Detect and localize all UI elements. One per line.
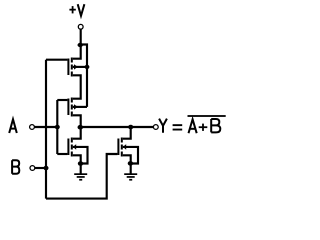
wire +V stem and Q1 source lead	[73, 29, 81, 58]
junction dot Q4 source	[128, 161, 133, 166]
terminal A	[30, 125, 35, 130]
overline NOT bar over A+B	[188, 115, 226, 117]
wire Q2 gate lead	[57, 99, 67, 101]
label +V letter V	[78, 4, 85, 16]
junction dot +V rail	[78, 43, 83, 47]
ground under Q4	[124, 173, 137, 180]
wire Q1 gate lead	[46, 59, 67, 61]
wire A bus vertical	[56, 100, 58, 154]
label formula A	[189, 119, 197, 133]
transistor Q2 PMOS gate bar and channel	[67, 98, 77, 117]
label formula B	[211, 119, 220, 132]
junction dot Q3 source	[78, 161, 83, 166]
wire output line to Y	[81, 126, 154, 128]
ground under Q3	[74, 173, 87, 180]
wire Q1 bulk lead	[73, 66, 87, 68]
terminal Y	[153, 125, 158, 130]
wire bottom loop B to Q4 gate	[46, 154, 117, 199]
label output Y	[159, 119, 167, 133]
junction dot A bus	[55, 125, 60, 130]
label input B	[12, 160, 19, 174]
wire Q4 source to ground	[123, 155, 131, 173]
wire Q2 drain to output node	[73, 115, 81, 127]
wire B bus vertical	[45, 60, 47, 199]
junction dot Q4 drain	[128, 125, 133, 130]
wire input A lead	[35, 126, 58, 128]
junction dot Q1 bulk	[85, 65, 90, 69]
wire Q2 bulk lead	[73, 106, 87, 108]
wire Q3 drain lead	[73, 127, 81, 139]
transistor Q3 NMOS gate bar and channel	[67, 138, 76, 157]
wire bulk branch to +V rail	[81, 45, 87, 107]
wire Q3 gate lead	[57, 153, 67, 155]
wire input B lead	[35, 167, 46, 169]
label +V plus sign	[69, 6, 75, 13]
junction dot B bus	[44, 166, 49, 171]
transistor Q4 NMOS gate bar and channel	[117, 138, 126, 157]
transistor Q1 PMOS gate bar and channel	[67, 58, 77, 77]
wire Q4 bulk return to source	[123, 147, 138, 164]
wire Q1 drain to Q2 source	[73, 75, 81, 98]
label input A	[9, 119, 17, 133]
junction dot output node	[78, 125, 84, 130]
label formula plus sign	[199, 124, 208, 131]
wire Q3 bulk return to source	[73, 147, 88, 164]
wire Q4 drain lead	[123, 127, 131, 139]
label equals sign	[173, 124, 183, 130]
terminal B	[30, 166, 35, 171]
wire Q3 source to ground	[73, 155, 81, 173]
terminal +V	[78, 24, 83, 29]
